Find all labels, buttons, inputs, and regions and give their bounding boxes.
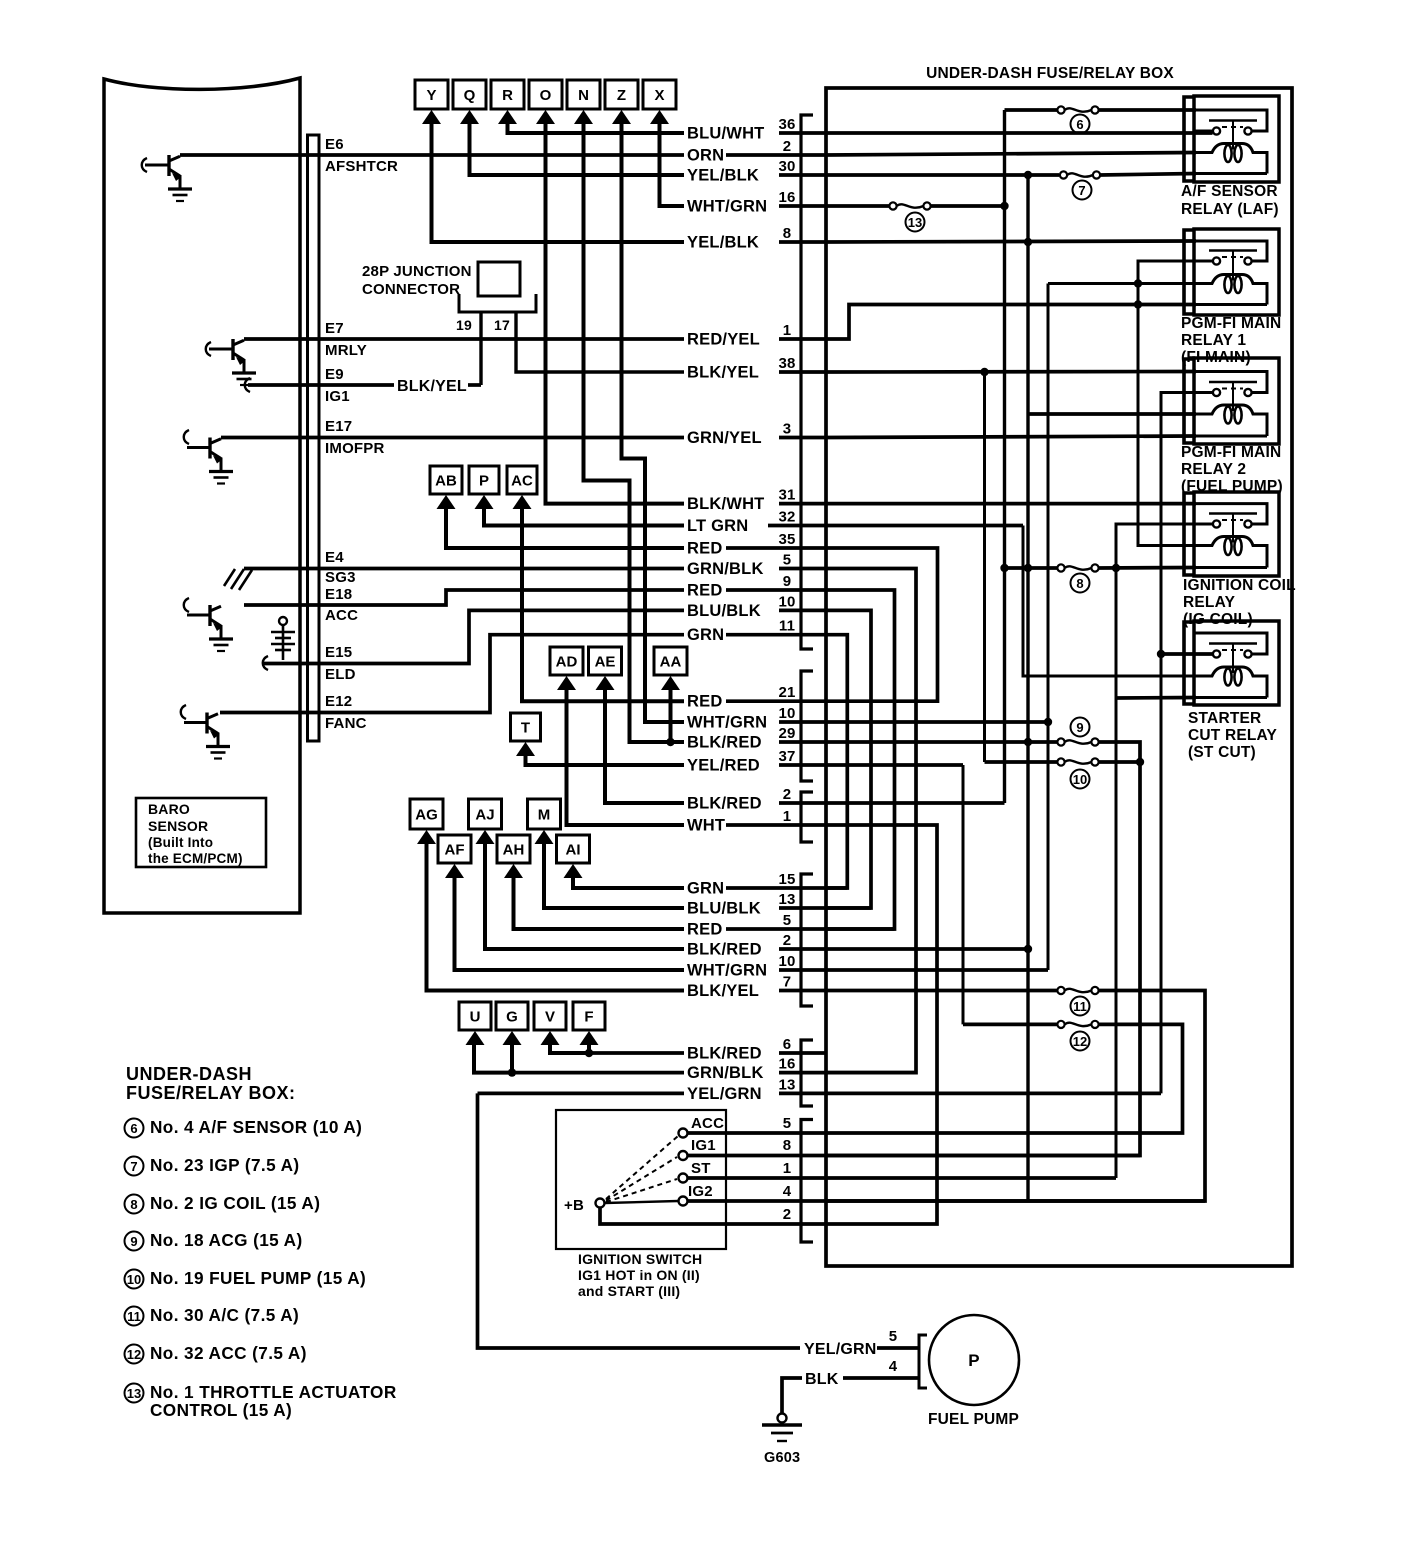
transistor Q1 <box>145 164 169 167</box>
junction V3 with relay 1 coil return <box>1134 300 1142 308</box>
wire WHT/GRN to ECM pin 10 <box>779 968 826 972</box>
wire RED to ECM pin 35 <box>726 546 826 550</box>
legend fuse 10 <box>125 1270 144 1289</box>
svg-text:WHT: WHT <box>687 817 725 835</box>
svg-text:GRN/BLK: GRN/BLK <box>687 560 764 578</box>
junction V8 with fuse 8 output <box>1112 564 1120 572</box>
svg-text:BLU/WHT: BLU/WHT <box>687 125 764 143</box>
svg-text:AB: AB <box>435 473 457 490</box>
svg-text:ACC: ACC <box>325 607 358 624</box>
svg-text:FUEL PUMP: FUEL PUMP <box>928 1411 1019 1428</box>
wire BLU/BLK to ECM pin 10 <box>779 609 826 613</box>
junction V3 with relay 1 coil wire <box>1134 279 1142 287</box>
svg-text:CONTROL (15 A): CONTROL (15 A) <box>150 1400 292 1420</box>
svg-text:(Built Into: (Built Into <box>148 835 213 850</box>
svg-text:17: 17 <box>494 317 510 333</box>
wire LT GRN 32 into box to node V7 <box>826 524 1023 528</box>
wire fuse 6 to A/F sensor relay <box>1099 108 1196 112</box>
svg-text:YEL/BLK: YEL/BLK <box>687 167 759 185</box>
svg-text:T: T <box>521 720 530 737</box>
svg-text:12: 12 <box>1073 1034 1087 1049</box>
svg-text:P: P <box>479 473 489 490</box>
svg-text:X: X <box>654 87 664 104</box>
svg-text:SG3: SG3 <box>325 569 356 586</box>
svg-text:LT GRN: LT GRN <box>687 517 748 535</box>
wire connector Q to YEL/BLK pin 30 <box>470 120 685 175</box>
legend fuse 12 <box>125 1345 144 1364</box>
relay IGNITION COIL bottom wire <box>1194 566 1267 569</box>
wire BLU/WHT to ECM pin 36 <box>779 131 826 135</box>
svg-text:(ST CUT): (ST CUT) <box>1188 744 1256 761</box>
wire GRN 11 arch to GRN 15 <box>826 635 847 888</box>
svg-text:RELAY 2: RELAY 2 <box>1181 461 1246 478</box>
legend fuse 6 <box>125 1119 144 1138</box>
junction V9 with fuse 10 output <box>1136 758 1144 766</box>
ignition switch ST contact <box>679 1174 688 1183</box>
wire fuse 8 feed from node V1 <box>1005 566 1058 570</box>
svg-text:G: G <box>506 1009 518 1026</box>
connector AI <box>557 835 590 878</box>
svg-text:AI: AI <box>566 842 581 859</box>
svg-text:WHT/GRN: WHT/GRN <box>687 714 767 732</box>
connector Q <box>453 80 486 124</box>
svg-text:BLK/YEL: BLK/YEL <box>687 364 759 382</box>
relay A/F SENSOR (LAF) armature <box>1209 119 1257 122</box>
transistor Q1 base hook <box>142 158 147 172</box>
svg-text:35: 35 <box>778 531 795 548</box>
wire node V10 down to fuse 12 <box>962 765 965 1024</box>
relay STARTER CUT switch feed wrap <box>1194 633 1267 654</box>
svg-text:4: 4 <box>783 1183 792 1200</box>
relay STARTER CUT bottom wire <box>1194 696 1267 699</box>
svg-text:IG1 HOT in ON (II): IG1 HOT in ON (II) <box>578 1267 700 1283</box>
svg-text:FANC: FANC <box>325 715 367 732</box>
wire connector AE to BLK/RED pin 2 <box>605 686 684 803</box>
svg-text:RED: RED <box>687 693 722 711</box>
fuse 10 <box>1057 758 1064 765</box>
wire GRN/YEL to ECM pin 3 <box>779 436 826 440</box>
svg-text:12: 12 <box>127 1347 141 1362</box>
ECM connector bracket segment 6 <box>801 1120 813 1243</box>
wire GRN/BLK to ECM pin 16 <box>779 1071 826 1075</box>
svg-text:GRN/YEL: GRN/YEL <box>687 429 762 447</box>
connector AF <box>438 835 471 878</box>
svg-text:10: 10 <box>1073 772 1087 787</box>
wire node V4 to PGM-FI relay 1 coil <box>1048 282 1196 285</box>
transistor Q2 base hook <box>206 342 211 356</box>
svg-text:the ECM/PCM): the ECM/PCM) <box>148 851 243 866</box>
wire RED/YEL 1 into box step up to relay 1 coil return <box>826 305 1196 340</box>
svg-text:No. 2 IG COIL (15 A): No. 2 IG COIL (15 A) <box>150 1193 320 1213</box>
wire GRN/BLK 16 to label <box>512 1071 684 1075</box>
svg-text:YEL/GRN: YEL/GRN <box>804 1341 877 1358</box>
svg-text:BLK/RED: BLK/RED <box>687 734 762 752</box>
relay A/F SENSOR (LAF) bottom wire <box>1194 172 1267 175</box>
ECM connector bracket segment 4 <box>801 874 813 1006</box>
svg-text:5: 5 <box>783 552 792 569</box>
junction fuse 8 feed on V1 <box>1000 564 1008 572</box>
ECM pin E9 wire BLK/YEL <box>248 383 394 387</box>
wire BLK/YEL to ECM pin 7 <box>779 989 826 993</box>
ECM pin E17 wire to GRN/YEL <box>221 436 684 440</box>
connector AE <box>589 647 622 690</box>
wire +B to fuse box <box>600 1208 826 1225</box>
wire connector X to WHT/GRN pin 16 <box>660 120 685 206</box>
relay IGNITION COIL switch feed wrap <box>1194 504 1267 524</box>
svg-text:2: 2 <box>783 138 792 155</box>
relay A/F SENSOR (LAF) body <box>1194 96 1279 182</box>
svg-text:3: 3 <box>783 421 792 438</box>
svg-text:E12: E12 <box>325 693 352 710</box>
wire IG2 to fuse box <box>688 1199 826 1203</box>
svg-text:9: 9 <box>783 573 792 590</box>
svg-text:AA: AA <box>660 654 682 671</box>
wire YEL/GRN 13 left segment <box>478 1092 685 1096</box>
svg-text:E7: E7 <box>325 320 344 337</box>
junction U and G on GRN/BLK 16 <box>508 1068 516 1076</box>
svg-text:No. 23 IGP (7.5 A): No. 23 IGP (7.5 A) <box>150 1155 300 1175</box>
svg-text:BLU/BLK: BLU/BLK <box>687 602 761 620</box>
transistor Q5 base hook <box>184 430 189 444</box>
wire connector AG to BLK/YEL pin 7 <box>427 840 685 991</box>
svg-text:AG: AG <box>415 807 438 824</box>
chassis ground at SG3 <box>224 569 252 590</box>
wire BLK/RED to ECM pin 29 <box>779 740 826 744</box>
ECM pin E12 wire step to GRN pin 11 <box>220 635 684 713</box>
wire BLK/YEL 7 into box to fuse 11 <box>826 989 1057 993</box>
ECM connector bracket segment 1 <box>801 115 813 649</box>
wire PGM-FI relay 2 contact to node V6 <box>1161 393 1196 1094</box>
wire BLK/WHT to ECM pin 31 <box>779 502 826 506</box>
ECM connector bracket segment 3 <box>801 792 813 842</box>
connector P <box>469 466 499 509</box>
connector F <box>573 1002 605 1045</box>
svg-text:7: 7 <box>783 974 792 991</box>
fuse 7 designator <box>1073 181 1092 200</box>
ELD sensor symbol <box>279 617 287 625</box>
legend fuse 9 <box>125 1232 144 1251</box>
wire YEL/BLK 8 into box to PGM-FI relay 1 <box>826 241 1196 242</box>
28P junction connector body <box>478 262 520 296</box>
svg-text:BLK/YEL: BLK/YEL <box>687 982 759 1000</box>
junction V6 with starter cut relay contact <box>1157 650 1165 658</box>
svg-text:AD: AD <box>556 654 578 671</box>
svg-text:BLK/YEL: BLK/YEL <box>397 378 467 395</box>
wire WHT/GRN 16 into box to fuse 13 <box>826 204 889 208</box>
wire BLK from fuel pump to ground <box>843 1376 919 1380</box>
svg-text:BLK: BLK <box>805 1371 839 1388</box>
BARO sensor note box <box>136 798 266 867</box>
svg-text:28P JUNCTION: 28P JUNCTION <box>362 263 472 280</box>
svg-text:E17: E17 <box>325 418 352 435</box>
wire YEL/BLK 30 into box to fuse 7 <box>826 173 1059 177</box>
ground at transistor Q2 <box>232 371 256 374</box>
wire ignition coil relay contact to node V8 <box>1116 524 1213 1178</box>
connector T <box>511 713 541 756</box>
connector AC <box>507 466 537 509</box>
wire IG2 into box <box>826 1199 1205 1203</box>
svg-text:BLK/RED: BLK/RED <box>687 941 762 959</box>
svg-text:No. 30 A/C (7.5 A): No. 30 A/C (7.5 A) <box>150 1305 299 1325</box>
svg-text:32: 32 <box>778 509 795 526</box>
junction BLK/RED 2 with node V2 <box>1024 945 1032 953</box>
ECM connector bracket segment 2 <box>801 671 813 781</box>
connector O <box>529 80 562 124</box>
wire connector Y to YEL/BLK pin 8 <box>432 120 685 242</box>
connector V <box>534 1002 566 1045</box>
relay PGM-FI MAIN 1 outer bracket <box>1184 230 1194 314</box>
svg-text:G603: G603 <box>764 1450 800 1466</box>
svg-text:No. 19 FUEL PUMP (15 A): No. 19 FUEL PUMP (15 A) <box>150 1268 366 1288</box>
connector R <box>491 80 524 124</box>
svg-text:RELAY 1: RELAY 1 <box>1181 332 1246 349</box>
transistor Q5 <box>187 446 210 449</box>
svg-text:10: 10 <box>778 705 795 722</box>
svg-text:M: M <box>538 807 551 824</box>
svg-text:38: 38 <box>778 355 795 372</box>
svg-text:RELAY: RELAY <box>1183 594 1236 611</box>
wire BLK/RED 29 into box to fuse 9 <box>826 740 1057 744</box>
wire RED 35 arch to RED 21 <box>826 548 938 701</box>
ignition switch IG2 contact <box>679 1197 688 1206</box>
wire node V5 to fuse 10 <box>985 760 1058 764</box>
wire node V10 fuse 12 feed <box>963 1023 1057 1027</box>
wire node V4 vertical to WHT/GRN 10 <box>1047 284 1050 971</box>
wire GRN 15 out of box <box>826 886 847 890</box>
wire connector F to BLK/RED pin 6 <box>587 1041 591 1053</box>
legend fuse 11 <box>125 1307 144 1326</box>
wire node V8 to starter cut relay return <box>1116 696 1196 700</box>
svg-text:1: 1 <box>783 322 792 339</box>
wire connector P to LT GRN pin 32 <box>484 505 684 526</box>
svg-text:21: 21 <box>778 684 795 701</box>
wire BLK/RED to ECM pin 2 <box>779 801 826 805</box>
relay IGNITION COIL armature <box>1209 512 1257 515</box>
svg-text:E9: E9 <box>325 366 344 383</box>
wire BLU/BLK 13 out of box <box>826 906 871 910</box>
svg-text:WHT/GRN: WHT/GRN <box>687 962 767 980</box>
svg-text:YEL/BLK: YEL/BLK <box>687 234 759 252</box>
relay IGNITION COIL switch contacts <box>1194 523 1213 526</box>
svg-text:IG2: IG2 <box>688 1183 713 1200</box>
relay IGNITION COIL body <box>1194 492 1279 576</box>
svg-text:IGNITION COIL: IGNITION COIL <box>1183 577 1296 594</box>
svg-text:GRN: GRN <box>687 880 724 898</box>
wire BLU/BLK 10 arch to BLU/BLK 13 <box>826 610 871 908</box>
relay PGM-FI MAIN 2 coil <box>1194 405 1267 436</box>
svg-text:9: 9 <box>1076 720 1083 735</box>
svg-text:YEL/RED: YEL/RED <box>687 757 760 775</box>
transistor Q3 <box>187 614 210 617</box>
wire BLK/RED to ECM pin 2 <box>779 947 826 951</box>
svg-text:UNDER-DASH: UNDER-DASH <box>126 1064 252 1084</box>
svg-text:AJ: AJ <box>475 807 494 824</box>
svg-text:BARO: BARO <box>148 801 190 817</box>
wire RED/YEL to ECM pin 1 <box>779 337 826 341</box>
fuse 13 <box>889 202 896 209</box>
svg-text:AFSHTCR: AFSHTCR <box>325 158 398 175</box>
wire connector N to BLK/RED pin 29 <box>584 120 685 742</box>
wire YEL/GRN 13 to fuel pump <box>478 1093 801 1348</box>
svg-text:+B: +B <box>564 1197 584 1214</box>
svg-text:BLK/WHT: BLK/WHT <box>687 495 764 513</box>
svg-text:Q: Q <box>464 87 476 104</box>
svg-text:O: O <box>540 87 552 104</box>
svg-text:and START (III): and START (III) <box>578 1283 680 1299</box>
svg-text:30: 30 <box>778 158 795 175</box>
wire fuse 7 to A/F relay coil return <box>1100 174 1196 176</box>
wire connector U to GRN/BLK pin 16 <box>474 1041 512 1073</box>
relay IGNITION COIL outer bracket <box>1184 493 1194 575</box>
wire GRN/YEL 3 into box to PGM-FI relay 2 return <box>826 436 1196 438</box>
wire YEL/GRN 13 into box to node V6 <box>826 1092 1161 1096</box>
svg-text:AF: AF <box>445 842 465 859</box>
svg-text:E18: E18 <box>325 586 352 603</box>
legend fuse 8 <box>125 1195 144 1214</box>
wire ORN to ECM pin 2 <box>726 153 826 157</box>
wire connector G to GRN/BLK pin 16 <box>510 1041 514 1073</box>
legend fuse 7 <box>125 1157 144 1176</box>
ground at transistor Q4 <box>206 745 230 748</box>
connector AH <box>497 835 530 878</box>
svg-text:E6: E6 <box>325 136 344 153</box>
fuse 8 designator <box>1071 574 1090 593</box>
svg-text:RED: RED <box>687 921 722 939</box>
svg-text:IG1: IG1 <box>691 1137 716 1154</box>
wire ST into box to node V8 <box>826 1176 1116 1180</box>
svg-text:AC: AC <box>511 473 533 490</box>
svg-text:11: 11 <box>127 1309 141 1324</box>
wire WHT/GRN to ECM pin 16 <box>779 204 826 208</box>
junction fuse 8 feed on V2 <box>1024 564 1032 572</box>
wire YEL/BLK to ECM pin 30 <box>779 173 826 177</box>
wire connector R to BLU/WHT pin 36 <box>508 120 685 133</box>
svg-text:ORN: ORN <box>687 147 724 165</box>
ELD wire hook <box>263 656 268 670</box>
svg-text:13: 13 <box>908 215 922 230</box>
svg-text:10: 10 <box>778 953 795 970</box>
svg-text:2: 2 <box>783 932 792 949</box>
under-dash fuse/relay box outline <box>826 88 1292 1266</box>
ECM pin E15 ELD wire step to BLU/BLK pin 10 <box>264 610 684 663</box>
wire connector AD to WHT pin 1 <box>567 686 685 825</box>
junction V4 with WHT/GRN 10 <box>1044 718 1052 726</box>
wire WHT/GRN to ECM pin 10 <box>779 720 826 724</box>
wire BLK/YEL to ECM pin 38 <box>779 370 826 374</box>
connector G <box>496 1002 528 1045</box>
svg-text:IG1: IG1 <box>325 388 350 405</box>
connector AG <box>410 799 443 844</box>
wire connector AB to RED pin 35 <box>446 505 684 548</box>
fuse 10 designator <box>1071 770 1090 789</box>
wire connector O to BLK/WHT pin 31 <box>546 120 685 504</box>
relay PGM-FI MAIN 1 armature <box>1209 249 1257 252</box>
connector AJ <box>469 799 502 844</box>
relay PGM-FI MAIN 2 switch contacts <box>1194 391 1213 394</box>
ECM pin E7 wire to RED/YEL <box>244 337 684 341</box>
wire fuse 13 to node V1 <box>931 204 1005 208</box>
svg-text:YEL/GRN: YEL/GRN <box>687 1085 762 1103</box>
ignition switch ACC contact <box>679 1129 688 1138</box>
fuel pump motor <box>929 1315 1019 1405</box>
relay PGM-FI MAIN 1 coil <box>1194 275 1267 305</box>
svg-text:16: 16 <box>778 189 795 206</box>
fuse 11 <box>1057 987 1064 994</box>
connector AD <box>550 647 583 690</box>
svg-text:1: 1 <box>783 808 792 825</box>
wire BLK/WHT 31 into box to ignition coil relay <box>826 502 1196 506</box>
wire from BLK/YEL label to 28P connector pin 19 <box>468 383 481 387</box>
fuse 13 designator <box>906 213 925 232</box>
svg-text:GRN/BLK: GRN/BLK <box>687 1064 764 1082</box>
fuse 6 designator <box>1071 115 1090 134</box>
svg-text:19: 19 <box>456 317 472 333</box>
wire BLU/WHT 36 into box to A/F relay contact <box>826 131 1213 135</box>
wire connector AH to RED pin 5 <box>514 874 685 929</box>
legend fuse 13 <box>125 1384 144 1403</box>
junction YEL/BLK 30 with node V2 <box>1024 171 1032 179</box>
relay PGM-FI MAIN 2 body <box>1194 358 1279 444</box>
svg-text:13: 13 <box>778 891 795 908</box>
svg-text:8: 8 <box>783 1137 792 1154</box>
svg-text:5: 5 <box>783 912 792 929</box>
wire YEL/RED 37 into box to node V10 <box>826 763 963 767</box>
transistor Q2 <box>209 348 233 351</box>
svg-text:6: 6 <box>783 1036 792 1053</box>
wire YEL/GRN to ECM pin 13 <box>779 1092 826 1096</box>
wire starter cut relay contact <box>1161 652 1213 656</box>
svg-text:A/F SENSOR: A/F SENSOR <box>1181 183 1278 200</box>
ignition switch IG1 contact <box>679 1151 688 1160</box>
svg-text:6: 6 <box>1076 117 1083 132</box>
svg-text:E4: E4 <box>325 549 344 566</box>
wire BLU/BLK to ECM pin 13 <box>779 906 826 910</box>
svg-text:4: 4 <box>889 1358 898 1375</box>
wire GRN/BLK 5 arch to GRN/BLK 16 <box>826 569 916 1073</box>
svg-text:R: R <box>502 87 513 104</box>
svg-text:BLK/RED: BLK/RED <box>687 795 762 813</box>
svg-text:7: 7 <box>1078 183 1085 198</box>
relay PGM-FI MAIN 2 armature <box>1209 381 1257 384</box>
wire ORN 2 into box to A/F relay coil <box>826 153 1196 156</box>
transistor Q3 base hook <box>184 598 189 612</box>
svg-text:1: 1 <box>783 1160 792 1177</box>
svg-text:RED: RED <box>687 582 722 600</box>
svg-text:15: 15 <box>778 871 795 888</box>
wire IG1 to fuse box <box>688 1154 826 1158</box>
wire fuse 10 to node V9 <box>1099 760 1140 764</box>
wire connector V to BLK/RED pin 6 <box>550 1041 589 1053</box>
wire connector AA to BLK/RED pin 29 <box>669 686 673 742</box>
svg-text:CONNECTOR: CONNECTOR <box>362 281 460 298</box>
svg-text:RED: RED <box>687 540 722 558</box>
svg-text:13: 13 <box>778 1076 795 1093</box>
wire node V7 to starter cut relay coil <box>1023 526 1196 677</box>
fuel pump connector bracket <box>919 1335 927 1388</box>
svg-text:RELAY (LAF): RELAY (LAF) <box>1181 201 1279 218</box>
svg-text:PGM-FI MAIN: PGM-FI MAIN <box>1181 444 1281 461</box>
svg-text:No. 32 ACC (7.5 A): No. 32 ACC (7.5 A) <box>150 1343 307 1363</box>
svg-text:AH: AH <box>503 842 525 859</box>
relay PGM-FI MAIN 2 outer bracket <box>1184 359 1194 443</box>
svg-text:CUT RELAY: CUT RELAY <box>1188 727 1278 744</box>
fuse 9 <box>1057 738 1064 745</box>
wire WHT 1 into box to node V11 <box>826 825 937 1224</box>
wire connector AF to WHT/GRN pin 10 <box>455 874 685 970</box>
junction AA stem to BLK/RED 29 <box>666 738 674 746</box>
svg-text:SENSOR: SENSOR <box>148 818 208 834</box>
relay PGM-FI MAIN 2 switch feed wrap <box>1194 372 1267 393</box>
